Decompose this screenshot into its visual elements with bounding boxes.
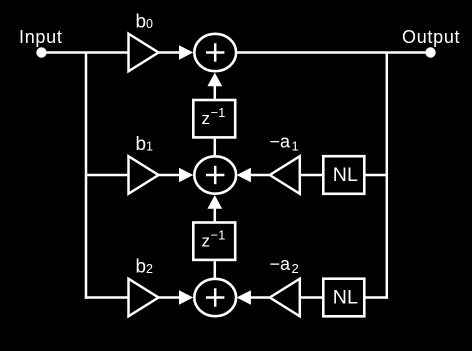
label -a2 — [270, 254, 299, 276]
arrowhead into summer S2 bottom from delay z2 — [207, 195, 222, 209]
node Output terminal — [425, 47, 435, 57]
arrowhead into summer S3 right from -a2 — [237, 290, 251, 305]
wire delay z1 to summer S1 — [214, 85, 217, 99]
svg-text:z: z — [202, 109, 211, 128]
svg-text:NL: NL — [333, 164, 358, 186]
wire output feedback vertical — [386, 53, 389, 299]
wire feedback to NL2 — [364, 296, 388, 299]
delay z1 — [193, 100, 235, 137]
svg-text:b: b — [136, 134, 147, 155]
svg-text:−a: −a — [270, 254, 292, 274]
svg-text:−a: −a — [270, 132, 292, 152]
svg-text:2: 2 — [292, 261, 299, 276]
arrowhead into summer S1 bottom from delay z1 — [207, 73, 222, 87]
wire b1 to summer S2 — [159, 174, 182, 177]
wire delay z2 to summer S2 — [214, 208, 217, 222]
wire input horizontal to b0 amplifier — [42, 51, 129, 54]
svg-text:Input: Input — [19, 27, 63, 47]
wire b0 to summer S1 — [159, 51, 182, 54]
svg-text:Output: Output — [402, 27, 460, 47]
wire summer S3 to delay z2 — [214, 261, 217, 278]
wire input branch vertical — [85, 53, 88, 299]
label z2 value z^-1 — [202, 228, 226, 251]
wire summer S2 to delay z1 — [214, 139, 217, 156]
amplifier -a2 — [270, 279, 300, 317]
summer S1 — [194, 34, 236, 71]
label NL1 — [333, 164, 358, 186]
arrowhead into summer S2 left — [179, 168, 193, 182]
label NL2 — [333, 287, 358, 309]
block NL2 — [323, 279, 364, 317]
arrowhead into summer S2 right from -a1 — [237, 168, 251, 183]
amplifier -a1 — [270, 156, 300, 194]
wire b2 to summer S3 — [159, 296, 182, 299]
label Output — [402, 27, 460, 47]
wire feedback to NL1 — [364, 174, 387, 177]
svg-text:1: 1 — [146, 140, 153, 154]
svg-text:−1: −1 — [211, 105, 226, 120]
svg-text:0: 0 — [146, 17, 153, 31]
node Input terminal — [36, 47, 46, 57]
label -a1 — [270, 132, 299, 154]
svg-text:b: b — [136, 12, 147, 33]
svg-text:b: b — [136, 257, 147, 278]
label Input — [19, 27, 63, 47]
label b0 — [136, 12, 154, 33]
delay z2 — [193, 223, 235, 260]
wire branch to b2 amplifier — [85, 296, 128, 299]
svg-text:1: 1 — [292, 139, 299, 154]
wire NL2 to -a2 — [300, 296, 323, 299]
svg-text:2: 2 — [146, 262, 153, 276]
arrowhead into summer S1 left — [179, 45, 193, 59]
amplifier b2 — [129, 279, 159, 317]
svg-text:z: z — [202, 232, 211, 251]
summer S2 — [194, 156, 236, 193]
wire summer S1 to output — [236, 51, 430, 54]
wire NL1 to -a1 — [300, 174, 323, 177]
wire -a1 to arrowhead — [250, 174, 269, 177]
wire branch to b1 amplifier — [86, 174, 128, 177]
summer S3 — [194, 279, 236, 316]
label b1 — [136, 134, 154, 155]
svg-text:−1: −1 — [211, 228, 226, 243]
block NL1 — [323, 156, 364, 194]
arrowhead into summer S3 left — [179, 290, 193, 304]
svg-text:NL: NL — [333, 287, 358, 309]
label z1 value z^-1 — [202, 105, 226, 128]
amplifier b0 — [129, 34, 159, 72]
wire -a2 to arrowhead — [250, 296, 269, 299]
amplifier b1 — [129, 156, 159, 194]
label b2 — [136, 257, 154, 278]
